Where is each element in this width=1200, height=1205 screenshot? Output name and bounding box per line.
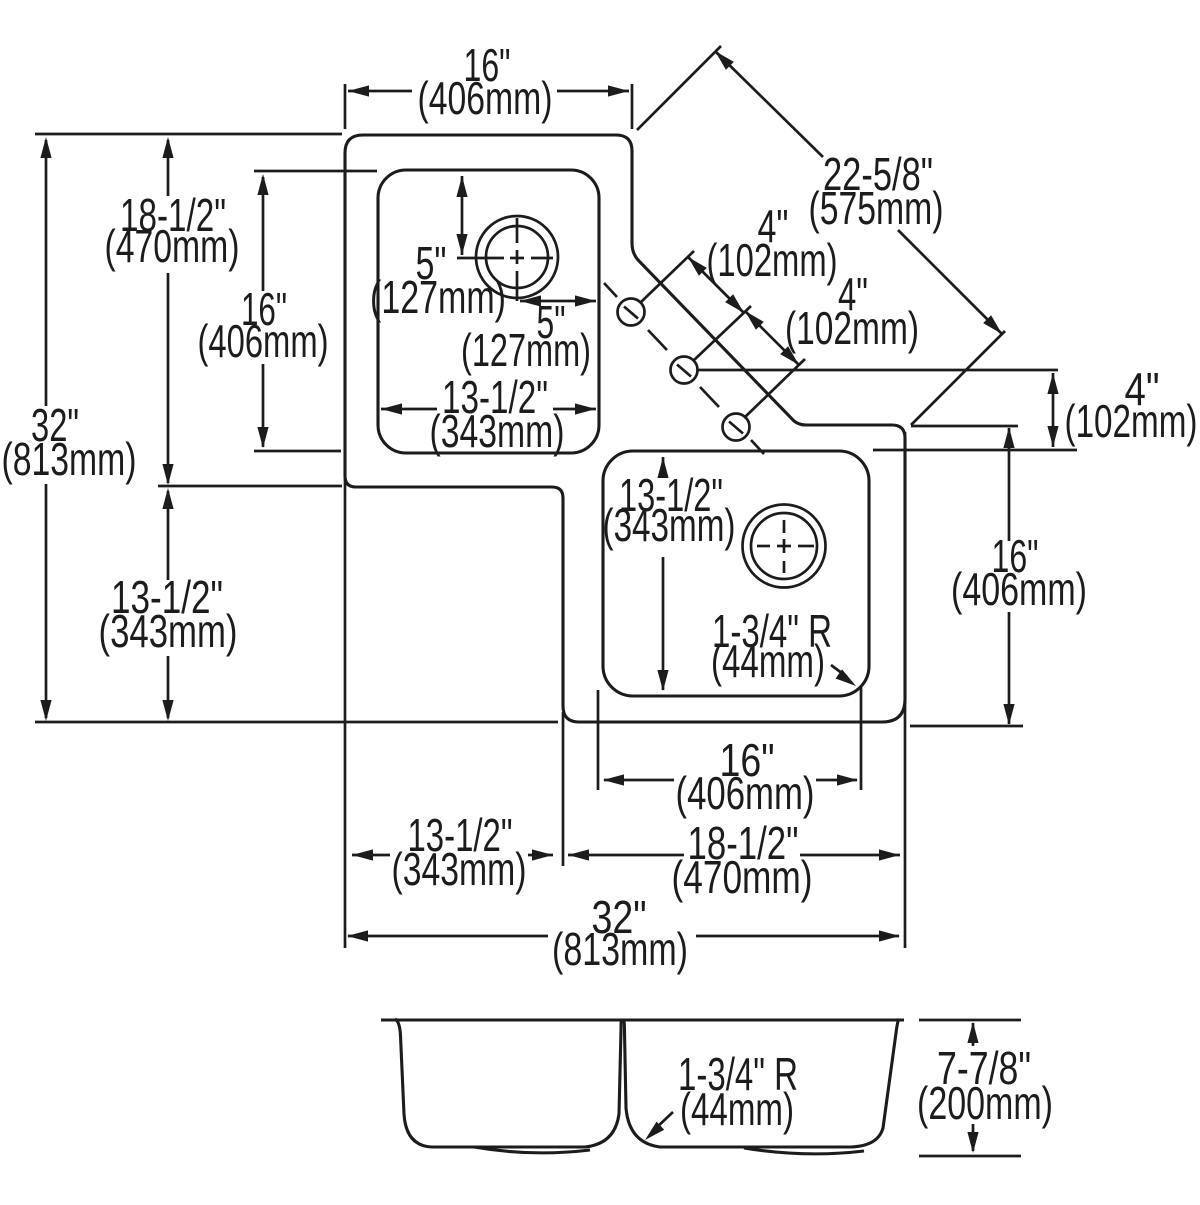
line C ext of sink edge y=426	[911, 425, 1018, 428]
svg-text:(406mm): (406mm)	[198, 315, 329, 367]
dim 32in left	[45, 140, 48, 406]
svg-text:(102mm): (102mm)	[785, 302, 919, 354]
drain D1 crosshair	[457, 218, 553, 301]
faucet centerline dashes	[604, 283, 764, 454]
dim 5in horizontal to drain	[520, 300, 596, 303]
svg-text:(44mm): (44mm)	[680, 1083, 794, 1135]
svg-text:(343mm): (343mm)	[392, 843, 527, 895]
svg-text:(470mm): (470mm)	[105, 220, 240, 272]
dim 4in between H1-H2	[688, 257, 744, 313]
ext line x=905 below sink	[904, 432, 907, 948]
line B ext of bowl2 top y=450	[873, 449, 1077, 452]
svg-text:(200mm): (200mm)	[917, 1077, 1053, 1129]
dim 13-1/2in bowl2 vertical	[662, 457, 665, 478]
section left bowl profile	[395, 1019, 622, 1147]
svg-text:(343mm): (343mm)	[603, 499, 736, 551]
dim 13-1/2in left lower	[167, 491, 170, 580]
svg-text:(127mm): (127mm)	[370, 271, 506, 323]
faucet hole H3	[723, 414, 750, 441]
ext line x=563 below sink	[562, 712, 565, 866]
drain D1 inner circle	[486, 226, 548, 288]
hole extension line E3	[744, 359, 805, 418]
bowl B2 (lower right bowl)	[603, 451, 869, 696]
extension line bottom y=722	[35, 721, 558, 724]
ext line x=345 below sink	[344, 477, 347, 948]
drain D2 crosshair	[757, 520, 814, 573]
drain D1 outer circle	[476, 216, 558, 298]
svg-text:(127mm): (127mm)	[461, 324, 591, 376]
svg-text:(343mm): (343mm)	[99, 605, 238, 657]
dim 16in bottom (bowl2 width)	[604, 779, 674, 782]
svg-text:(813mm): (813mm)	[2, 433, 137, 485]
extension line top left y=134	[35, 133, 342, 136]
ext line bottom right y=726	[910, 725, 1023, 728]
section left bowl dish	[474, 1147, 590, 1153]
dim 32in bottom	[348, 935, 548, 938]
dim 16in bowl1 vertical	[254, 170, 377, 173]
dim 22-5/8in diagonal	[637, 46, 721, 130]
sink outline (plan view)	[345, 135, 905, 722]
drain D2 outer circle	[743, 505, 826, 588]
ext line x=861 bowl2 right	[860, 687, 863, 790]
dim 18-1/2in left	[167, 140, 170, 196]
dim 13-1/2in bottom left	[352, 854, 390, 857]
dim 4in right side	[1052, 373, 1055, 447]
dim 18-1/2in bottom	[568, 854, 684, 857]
extension line mid left y=486	[158, 485, 342, 488]
svg-text:(813mm): (813mm)	[552, 923, 688, 975]
drain D2 inner circle	[751, 513, 817, 579]
faucet hole H1	[618, 299, 645, 326]
svg-text:(406mm): (406mm)	[418, 72, 553, 124]
dim 13-1/2in bowl1 horizontal	[381, 408, 437, 411]
svg-text:(102mm): (102mm)	[1065, 395, 1198, 447]
dim 16in top	[344, 84, 347, 129]
svg-text:(102mm): (102mm)	[707, 234, 838, 286]
line A from hole2 y=370	[697, 369, 1058, 372]
svg-text:(470mm): (470mm)	[672, 851, 813, 903]
section right bowl dish	[744, 1148, 864, 1154]
section right bowl profile	[624, 1019, 900, 1147]
hole extension line E2	[693, 306, 751, 361]
dim 16in right side	[1008, 428, 1011, 541]
section view rim line	[381, 1018, 904, 1021]
svg-text:(406mm): (406mm)	[676, 767, 815, 819]
ext line x=598 bowl2 left	[597, 690, 600, 790]
dim 7-7/8in section depth	[919, 1019, 1021, 1022]
svg-text:(575mm): (575mm)	[809, 182, 944, 234]
dim 4in between H2-H3	[745, 311, 799, 365]
bowl B1 (upper left bowl)	[378, 170, 599, 453]
svg-text:(44mm): (44mm)	[711, 635, 825, 687]
svg-text:(343mm): (343mm)	[430, 405, 565, 457]
dim 5in vertical to drain	[461, 176, 464, 255]
hole extension line E1	[641, 251, 694, 302]
faucet hole H2	[671, 357, 698, 384]
svg-text:(406mm): (406mm)	[951, 563, 1087, 615]
